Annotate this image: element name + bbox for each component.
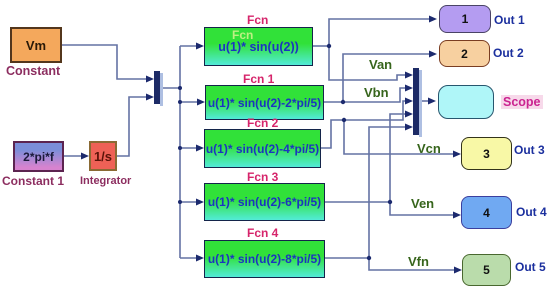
arrowhead into Out 3 [453, 151, 461, 158]
wire branch to Fcn 4 [180, 257, 197, 259]
wire node E to Out 5 (Vfn) [369, 258, 455, 270]
wire Vm to Mux [62, 45, 147, 79]
label Fcn 3 [247, 170, 278, 184]
label Out 3 [514, 143, 545, 157]
outport block 2 [439, 40, 490, 67]
ghost label artifact inside Fcn [232, 28, 253, 42]
node A [327, 44, 331, 48]
wire Mux output to distribution node [160, 87, 180, 89]
wire branch to Fcn 2 [180, 147, 197, 149]
node D [388, 200, 392, 204]
wire Integrator to Mux [117, 97, 147, 156]
wire Mux1 output to Scope [419, 100, 429, 102]
arrowhead into Mux port2 [146, 94, 154, 101]
wire Fcn 1 output to node B [324, 101, 343, 103]
net label Van [369, 57, 392, 72]
label Constant 1 [2, 174, 64, 188]
arrowhead into Mux1 port4 [405, 111, 413, 118]
outport block 4 [461, 196, 512, 229]
wire node D to Mux1 port4 [390, 114, 405, 202]
label Out 5 [515, 260, 546, 274]
node dot distribution Fcn2 [178, 146, 182, 150]
label Fcn 4 [247, 226, 278, 240]
node dot distribution Fcn1 [178, 100, 182, 104]
label Fcn 1 [243, 72, 274, 86]
node C [342, 118, 346, 122]
wire Fcn 3 output to node D [325, 201, 390, 203]
mux M2 (right) [413, 68, 422, 137]
wire Fcn output to node A [313, 45, 329, 47]
node dot distribution feed [178, 86, 182, 90]
arrowhead into Out 5 [454, 267, 462, 274]
label Out 1 [494, 13, 525, 27]
net label Ven [411, 196, 434, 211]
arrowhead into Fcn 1 [197, 99, 205, 106]
scope block [438, 85, 494, 119]
arrowhead into Fcn 3 [196, 199, 204, 206]
arrowhead into Mux port1 [146, 76, 154, 83]
wire Constant1 to Integrator [64, 155, 82, 157]
wire node C to Mux1 port3 [344, 101, 405, 120]
outport block 5 [462, 254, 511, 286]
arrowhead into Mux1 port1 [405, 72, 413, 79]
label Constant [6, 64, 60, 78]
arrowhead into Mux1 port2 [405, 85, 413, 92]
mux M1 (left) [154, 71, 163, 106]
label Scope [501, 95, 543, 109]
wire Fcn 2 output to node C [321, 120, 344, 148]
node B [341, 100, 345, 104]
outport block 3 [461, 137, 512, 170]
net label Vcn [417, 141, 441, 156]
wire node A to Out 1 [329, 19, 430, 46]
label Fcn 2 [247, 116, 278, 130]
wire node A to Mux1 port1 (Van) [329, 46, 405, 80]
constant block 2*pi*f [13, 141, 64, 172]
arrowhead into Out 2 [429, 51, 437, 58]
arrowhead into Mux1 port5 [405, 124, 413, 131]
label Out 4 [516, 205, 547, 219]
wire node C to Out 3 (Vcn) [344, 120, 454, 154]
function block Fcn 1 [205, 85, 324, 120]
arrowhead into Out 4 [453, 212, 461, 219]
arrowhead into Scope [428, 98, 436, 105]
net label Vbn [364, 85, 389, 100]
arrowhead into Fcn [196, 43, 204, 50]
node dot distribution Fcn3 [178, 200, 182, 204]
constant block Vm [10, 27, 62, 63]
wire node B to Out 2 [343, 54, 430, 102]
wire node E to Mux1 port5 [369, 127, 405, 258]
wire node D to Out 4 (Ven) [390, 202, 454, 215]
net label Vfn [408, 254, 429, 269]
integrator block 1/s [89, 141, 117, 171]
function block Fcn 2 [204, 129, 321, 168]
label Fcn [247, 13, 268, 27]
wire branch to Fcn 1 [180, 101, 197, 103]
arrowhead into Integrator [81, 153, 89, 160]
arrowhead into Out 1 [429, 16, 437, 23]
wire Fcn 4 output to node E [325, 257, 369, 259]
wire distribution vertical [179, 46, 181, 258]
arrowhead into Mux1 port3 [405, 98, 413, 105]
wire branch to Fcn [180, 45, 197, 47]
arrowhead into Fcn 4 [196, 255, 204, 262]
node E [367, 256, 371, 260]
arrowhead into Fcn 2 [196, 145, 204, 152]
label Out 2 [493, 46, 524, 60]
outport block 1 [439, 5, 491, 33]
function block Fcn 4 [204, 240, 325, 278]
function block Fcn 3 [204, 183, 325, 221]
label Integrator [80, 175, 131, 187]
wire node B to Mux1 port2 (Vbn) [343, 88, 405, 102]
function block Fcn [204, 27, 313, 66]
wire branch to Fcn 3 [180, 201, 197, 203]
